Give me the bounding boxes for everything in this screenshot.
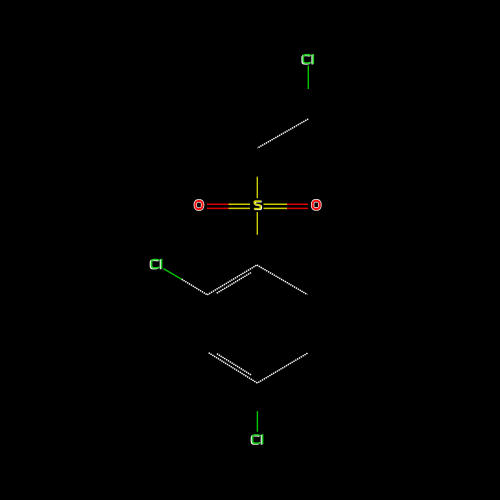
bond S=O right, upper line, oxygen half bbox=[287, 203, 308, 205]
atom label Cl left bbox=[151, 259, 162, 269]
atom label O left bbox=[195, 201, 202, 209]
bond C5-C6 ring bbox=[257, 353, 307, 383]
bond C6-C7 ring main bbox=[208, 352, 257, 383]
bond C6=C7 inner double line bbox=[217, 354, 251, 375]
bond C2-S sulfur half bbox=[256, 177, 258, 199]
bond C8-Cl(left) chlorine half bbox=[163, 269, 181, 280]
bond S=O left, upper line, sulfur half bbox=[229, 203, 251, 205]
bond S=O right, lower line, sulfur half bbox=[264, 207, 288, 209]
atom label Cl bottom bbox=[252, 434, 263, 444]
bond C8-C3 ring main bbox=[207, 265, 257, 295]
bond S-C3 sulfur half bbox=[256, 212, 258, 235]
bond C3-C4 ring bbox=[257, 265, 307, 295]
bond C1-C2 bbox=[258, 119, 309, 148]
bond S=O left, lower line, oxygen half bbox=[207, 207, 229, 209]
atom label Cl top bbox=[302, 54, 313, 64]
bond C6-Cl(bottom) chlorine half bbox=[256, 411, 258, 432]
wire Cl(top)-C1 chlorine half bbox=[307, 66, 309, 90]
bond S=O right, lower line, oxygen half bbox=[287, 207, 308, 209]
atom label S bbox=[254, 201, 262, 209]
bond S=O left, upper line, oxygen half bbox=[207, 203, 229, 205]
atom label O right bbox=[313, 201, 320, 209]
bond C8=C3 inner double line bbox=[217, 273, 251, 294]
bond S=O right, upper line, sulfur half bbox=[264, 203, 288, 205]
bond S=O left, lower line, sulfur half bbox=[229, 207, 251, 209]
bond C8-Cl(left) carbon half bbox=[182, 279, 208, 295]
